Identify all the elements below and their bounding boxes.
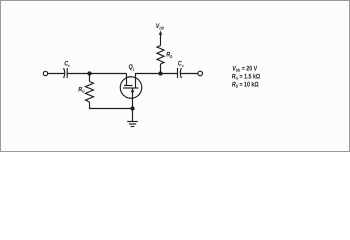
node source junction [131, 107, 134, 110]
svg-text:RD = 10 kΩ: RD = 10 kΩ [232, 81, 259, 88]
border frame [1, 1, 350, 152]
transistor Q1 substrate arrow [131, 88, 135, 92]
capacitor Cc2 (output coupling) [177, 68, 179, 78]
input terminal [43, 71, 47, 75]
svg-text:RD: RD [166, 52, 172, 59]
wire capacitor Cc1 to gate [67, 73, 126, 75]
svg-text:Q1: Q1 [129, 64, 136, 71]
wire drain lead to drain node [136, 74, 161, 89]
output terminal [198, 71, 203, 76]
transistor Q1 (depletion MOSFET, circle envelope) [120, 77, 142, 99]
resistor RG [86, 82, 94, 103]
resistor RD [157, 46, 164, 65]
wire resistor RD to VDD supply [160, 35, 162, 46]
transistor Q1 gate lead [126, 74, 128, 86]
wire drain node to capacitor Cc2 [161, 73, 178, 75]
transistor Q1 source lead [132, 88, 134, 109]
VDD supply arrow [159, 31, 162, 35]
wire input to capacitor Cc1 [48, 73, 65, 75]
svg-text:VDD = 20 V: VDD = 20 V [232, 65, 257, 72]
svg-text:Cc: Cc [64, 61, 70, 68]
transistor Q1 gate plate [124, 85, 133, 87]
node gate junction [88, 72, 91, 75]
wire capacitor Cc2 to output terminal [181, 73, 198, 75]
wire resistor RG bottom to source rail [90, 102, 133, 109]
transistor Q1 channel bar [123, 87, 139, 89]
ground [127, 121, 138, 123]
wire gate node down to resistor RG [89, 74, 91, 82]
svg-text:VDD: VDD [156, 23, 164, 30]
svg-text:RG: RG [78, 86, 84, 93]
svg-text:Cc: Cc [178, 61, 184, 68]
node drain junction [159, 72, 162, 75]
svg-text:RG = 1.5 kΩ: RG = 1.5 kΩ [232, 73, 261, 80]
capacitor Cc1 (input coupling) [64, 68, 65, 78]
wire drain node up to resistor RD [160, 64, 162, 74]
wire source node to ground [132, 109, 134, 122]
